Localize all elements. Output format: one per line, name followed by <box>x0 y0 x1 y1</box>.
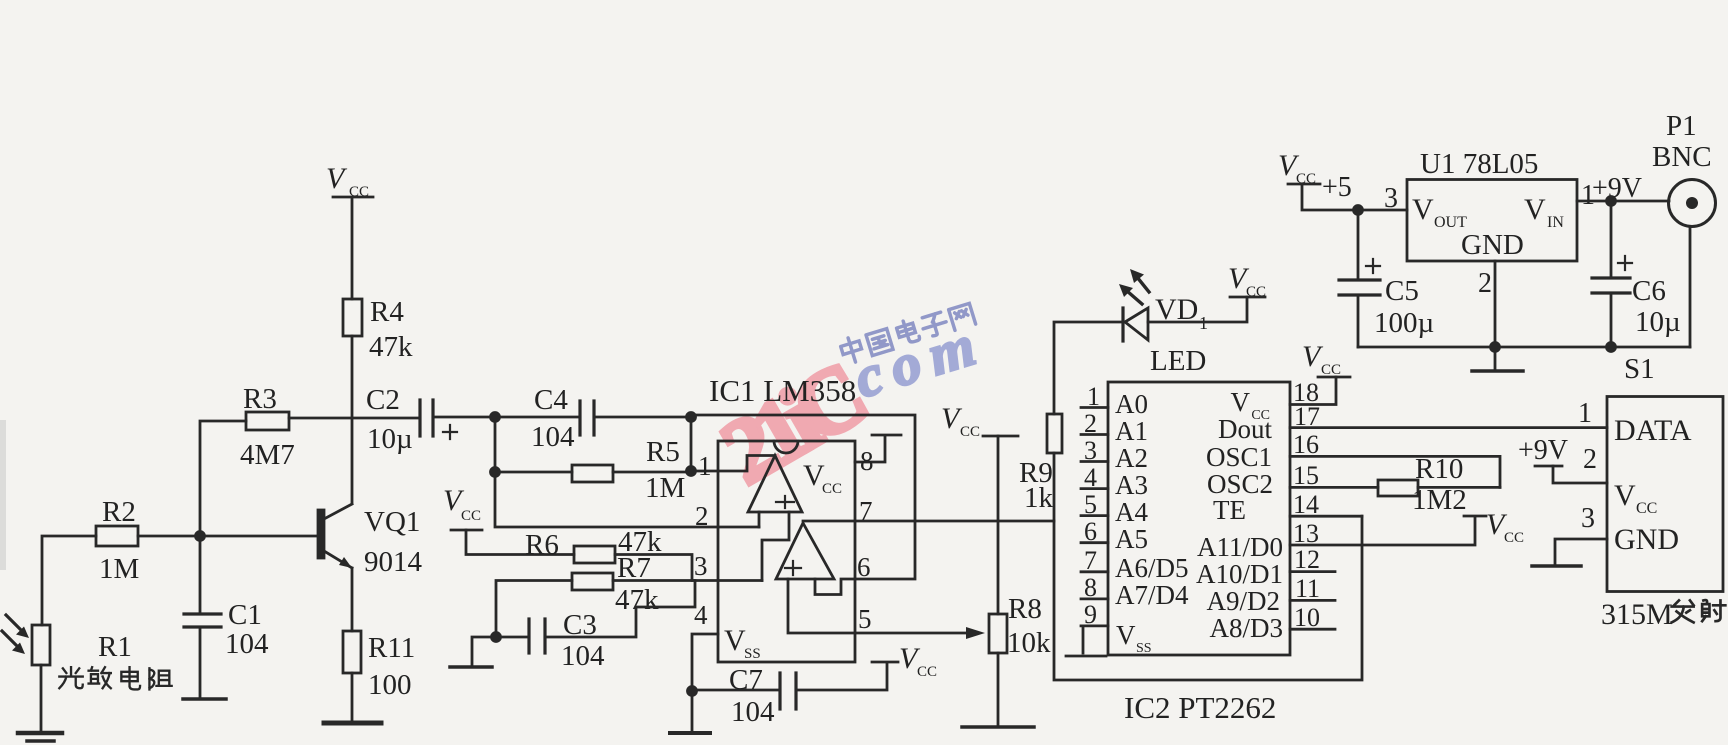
IC2 pin 5 stub <box>1081 490 1108 519</box>
resistor R5 1M <box>572 436 685 504</box>
capacitor C6 10u <box>1592 256 1681 338</box>
IC2 pin 12 stub <box>1290 545 1335 574</box>
svg-text:5: 5 <box>858 604 872 634</box>
svg-text:A7/D4: A7/D4 <box>1115 580 1189 610</box>
svg-text:5: 5 <box>1084 490 1097 519</box>
photoresistor R1 <box>2 615 132 665</box>
pin 8 to Vcc bar <box>855 435 901 476</box>
svg-text:VQ1: VQ1 <box>364 506 420 538</box>
svg-text:2: 2 <box>1583 444 1597 475</box>
wire C4 to node A <box>594 416 691 419</box>
op-amp IC1 LM358 package <box>709 373 856 662</box>
node pin1/R5 <box>687 467 696 476</box>
svg-text:CC: CC <box>1321 362 1341 378</box>
wire R2 left down to R1 <box>42 536 96 625</box>
IC2 pin 16 OSC1 wire <box>1290 430 1500 487</box>
IC2 pin 7 stub <box>1081 546 1108 575</box>
svg-text:C4: C4 <box>534 384 568 416</box>
svg-text:R8: R8 <box>1008 593 1042 625</box>
pin 5 route from op-amp B <box>788 579 872 634</box>
svg-text:V: V <box>1614 479 1636 512</box>
svg-text:10µ: 10µ <box>1635 306 1681 338</box>
wire base node to base <box>200 535 318 538</box>
wire C7 to Vcc <box>796 663 887 690</box>
svg-text:GND: GND <box>1461 229 1524 261</box>
svg-text:SS: SS <box>744 646 761 662</box>
svg-text:C2: C2 <box>366 384 400 416</box>
svg-text:IC2 PT2262: IC2 PT2262 <box>1124 690 1276 725</box>
svg-text:A5: A5 <box>1115 524 1148 554</box>
wire top loop node A to pin 6 <box>691 415 915 579</box>
svg-text:16: 16 <box>1293 430 1319 459</box>
svg-text:104: 104 <box>225 628 269 660</box>
op-amp A triangle <box>748 456 802 513</box>
svg-text:CC: CC <box>1246 284 1266 300</box>
svg-text:R6: R6 <box>525 529 559 561</box>
svg-text:1M: 1M <box>645 472 685 504</box>
wire R11 to ground <box>351 673 354 721</box>
svg-text:IC1 LM358: IC1 LM358 <box>709 373 856 408</box>
wire R8 to ground <box>997 653 1000 725</box>
wire module pin 3 to ground <box>1555 539 1607 564</box>
svg-text:TE: TE <box>1213 495 1246 525</box>
svg-text:C1: C1 <box>228 599 262 631</box>
svg-text:12: 12 <box>1294 545 1320 574</box>
svg-text:R2: R2 <box>102 496 136 528</box>
ground below C1 <box>183 697 226 701</box>
svg-text:GND: GND <box>1614 523 1679 556</box>
wire R5 left lead <box>495 471 572 474</box>
svg-text:1: 1 <box>698 451 712 481</box>
svg-text:A1: A1 <box>1115 416 1148 446</box>
wire C5 bottom to rail <box>1357 295 1360 347</box>
wire R1 to ground <box>40 665 43 731</box>
IC2 pin 2 stub <box>1081 409 1108 438</box>
op-amp B triangle <box>776 523 834 579</box>
svg-text:15: 15 <box>1293 461 1319 490</box>
svg-text:U1 78L05: U1 78L05 <box>1420 148 1538 180</box>
capacitor C3 104 <box>529 609 605 672</box>
IC2 right pin labels <box>1196 387 1283 643</box>
svg-text:1: 1 <box>1087 382 1100 411</box>
svg-text:9: 9 <box>1084 600 1097 629</box>
resistor R4 47k <box>343 296 413 363</box>
svg-text:6: 6 <box>857 552 871 582</box>
svg-text:A10/D1: A10/D1 <box>1196 559 1283 589</box>
label 315M发射 <box>1601 598 1725 631</box>
svg-text:7: 7 <box>859 496 873 526</box>
svg-text:47k: 47k <box>369 331 413 363</box>
pin 6 hook on op-amp B <box>815 552 871 595</box>
ground below R11 <box>324 721 381 726</box>
svg-text:13: 13 <box>1293 519 1319 548</box>
svg-text:A8/D3: A8/D3 <box>1210 613 1284 643</box>
wire R9 up to LED <box>1054 322 1123 414</box>
svg-text:3: 3 <box>1084 436 1097 465</box>
resistor R6 47k <box>525 526 662 563</box>
wire node to C4 <box>495 416 580 419</box>
svg-text:Dout: Dout <box>1218 414 1272 444</box>
svg-text:14: 14 <box>1293 490 1319 519</box>
IC2 pin 1 stub <box>1081 382 1108 411</box>
svg-text:17: 17 <box>1294 402 1320 431</box>
svg-text:104: 104 <box>731 696 775 728</box>
pin 7 output wire <box>803 496 1054 526</box>
IC2 pin 13 wire to Vcc <box>1290 508 1524 548</box>
node C5 top <box>1354 206 1363 215</box>
ground below pin4 <box>670 731 710 735</box>
LED VD1 <box>1119 269 1208 341</box>
node C6 rail <box>1607 343 1616 352</box>
wire R3 left down to base node <box>200 421 246 614</box>
svg-text:1k: 1k <box>1024 482 1054 514</box>
IC2 pin 8 stub <box>1081 573 1108 602</box>
wire +9V to module pin 2 <box>1553 466 1607 483</box>
pin 2 stub to op-amp A <box>695 501 759 531</box>
wire node A down to pin1 node <box>690 417 693 471</box>
ground below C3 <box>450 665 492 669</box>
watermark 中国电子网 logo <box>839 301 976 365</box>
svg-text:V: V <box>1524 193 1546 226</box>
wire C6 top lead <box>1610 201 1613 278</box>
svg-text:100: 100 <box>368 669 412 701</box>
wire pin 5 arrow to R8 wiper <box>855 627 985 639</box>
svg-text:C6: C6 <box>1632 275 1666 307</box>
IC2 pin 9 stub and hook <box>1066 600 1108 656</box>
wire Vcc to R4 <box>351 197 354 299</box>
capacitor C1 104 <box>184 599 269 660</box>
regulator U1 78L05 <box>1384 148 1595 299</box>
capacitor C7 104 <box>729 664 796 728</box>
label 光敏电阻 <box>59 667 171 689</box>
svg-text:3: 3 <box>1384 183 1398 214</box>
wire R7 left down to C3 node <box>496 581 572 638</box>
svg-text:CC: CC <box>960 424 980 440</box>
Vcc supply above R4 <box>326 162 373 200</box>
capacitor C4 104 <box>531 384 594 453</box>
svg-text:R3: R3 <box>243 383 277 415</box>
wire R6 to pin3 node <box>615 555 692 581</box>
svg-text:C5: C5 <box>1385 275 1419 307</box>
svg-text:IN: IN <box>1547 214 1564 231</box>
svg-text:CC: CC <box>1296 171 1316 187</box>
IC2 pin 18 stub to Vcc <box>1290 340 1350 407</box>
wire C3 left to node <box>496 636 529 639</box>
svg-text:+9V: +9V <box>1518 435 1568 466</box>
wire R9 down TE loop <box>1054 453 1362 680</box>
svg-text:104: 104 <box>531 421 575 453</box>
IC2 left pin labels <box>1115 389 1189 656</box>
svg-text:SS: SS <box>1136 641 1152 656</box>
IC2 pin 3 stub <box>1081 436 1108 465</box>
potentiometer R8 10k <box>989 593 1051 659</box>
svg-text:3: 3 <box>1581 503 1595 534</box>
svg-text:A6/D5: A6/D5 <box>1115 553 1189 583</box>
svg-text:C7: C7 <box>729 664 763 696</box>
svg-text:315M: 315M <box>1601 598 1673 631</box>
svg-text:CC: CC <box>822 481 842 497</box>
capacitor C2 10u <box>366 384 457 455</box>
svg-text:R10: R10 <box>1415 453 1463 485</box>
svg-text:BNC: BNC <box>1652 141 1712 173</box>
svg-text:100µ: 100µ <box>1374 307 1434 339</box>
svg-text:V: V <box>1231 387 1251 417</box>
wire C5 top lead <box>1357 210 1360 280</box>
svg-text:1: 1 <box>1578 398 1592 429</box>
pin 1 internal route <box>691 451 775 481</box>
wire emitter to R11 <box>351 568 354 631</box>
svg-text:A3: A3 <box>1115 470 1148 500</box>
svg-text:11: 11 <box>1295 574 1320 603</box>
svg-text:+9V: +9V <box>1592 173 1642 204</box>
Vcc supply at LED <box>1228 262 1266 300</box>
Vcc supply for R6 <box>443 484 482 530</box>
svg-text:V: V <box>1412 193 1434 226</box>
Vcc +5 supply left of U1 <box>1278 149 1352 203</box>
wire C2 node down to pin2 <box>495 417 759 527</box>
node pin4 ground <box>688 687 697 696</box>
node GND rail <box>1491 343 1500 352</box>
ground below R1 <box>18 733 62 741</box>
resistor R3 4M7 <box>240 383 295 471</box>
wire C3 node to ground <box>472 637 496 665</box>
svg-text:1M2: 1M2 <box>1412 484 1467 516</box>
svg-text:V: V <box>326 162 348 195</box>
wire U1 pin1 to BNC <box>1577 200 1669 203</box>
connector P1 BNC <box>1652 110 1716 227</box>
Vcc supply above R8 <box>941 402 1018 440</box>
node C6 top <box>1607 197 1616 206</box>
wire BNC shell to rail <box>1689 227 1692 348</box>
wire pin4 node to ground <box>691 691 694 731</box>
svg-text:A11/D0: A11/D0 <box>1197 532 1283 562</box>
wire Vcc down to R8 <box>997 436 1000 614</box>
resistor R11 100 <box>343 631 415 701</box>
svg-text:CC: CC <box>461 508 481 524</box>
wire Vcc to R6 <box>466 530 574 555</box>
wire R4 to collector node <box>351 336 354 503</box>
capacitor C5 100u <box>1339 259 1434 339</box>
svg-text:R11: R11 <box>368 632 415 664</box>
ground below R8 <box>962 725 1034 729</box>
svg-text:CC: CC <box>917 664 937 680</box>
svg-text:com: com <box>847 309 993 410</box>
svg-text:6: 6 <box>1084 517 1097 546</box>
node base junction <box>196 532 205 541</box>
IC2 pin 11 stub <box>1290 574 1335 603</box>
svg-text:9014: 9014 <box>364 546 423 578</box>
resistor R10 1M2 <box>1378 453 1467 516</box>
svg-text:A9/D2: A9/D2 <box>1207 586 1281 616</box>
Vcc supply at C7 <box>872 642 937 680</box>
wire C2 to node <box>433 416 495 419</box>
wire pin4 node to C7 <box>692 689 778 692</box>
svg-text:A0: A0 <box>1115 389 1148 419</box>
wire LED to Vcc <box>1148 297 1247 322</box>
node C3 left <box>492 633 501 642</box>
wire U1 GND pin 2 <box>1494 261 1497 369</box>
IC2 pin 14 TE stub <box>1290 490 1362 519</box>
svg-text:4M7: 4M7 <box>240 439 295 471</box>
svg-text:104: 104 <box>561 640 605 672</box>
IC2 pin 17 Dout wire to module <box>1290 402 1607 431</box>
svg-text:A2: A2 <box>1115 443 1148 473</box>
svg-text:DATA: DATA <box>1614 414 1692 447</box>
pin 4 wire to ground node <box>692 600 718 691</box>
pin 3 route to op-amp A <box>694 512 789 581</box>
IC2 pin 6 stub <box>1081 517 1108 546</box>
svg-text:LED: LED <box>1150 345 1206 377</box>
+9V supply at module pin2 <box>1518 435 1568 466</box>
svg-text:2: 2 <box>1478 268 1492 299</box>
svg-text:3: 3 <box>694 551 708 581</box>
node A <box>687 413 696 422</box>
wire C6 bottom to rail <box>1610 293 1613 347</box>
svg-text:4: 4 <box>1084 463 1097 492</box>
ground below rail <box>1472 369 1523 373</box>
svg-text:V: V <box>1116 620 1136 650</box>
svg-text:8: 8 <box>860 446 874 476</box>
resistor R9 1k <box>1019 414 1062 514</box>
wire R7 right to pin 3 <box>613 579 762 582</box>
wire C3 right to pin3 line <box>545 581 695 638</box>
wire C1 to ground <box>199 627 202 697</box>
resistor R7 47k <box>572 552 659 616</box>
svg-text:OSC1: OSC1 <box>1206 442 1272 472</box>
svg-text:A4: A4 <box>1115 497 1148 527</box>
svg-text:S1: S1 <box>1624 353 1655 385</box>
svg-text:CC: CC <box>1636 500 1657 517</box>
resistor R2 1M <box>96 496 139 585</box>
IC2 PT2262 box <box>1108 345 1290 725</box>
svg-text:8: 8 <box>1084 573 1097 602</box>
svg-text:P1: P1 <box>1666 110 1697 142</box>
node R5 left <box>491 468 500 477</box>
svg-text:R1: R1 <box>98 631 132 663</box>
transmitter module 315M box <box>1578 397 1723 592</box>
IC2 pin 4 stub <box>1081 463 1108 492</box>
ground below module pin3 <box>1532 564 1581 568</box>
wire R3 right to C2 node <box>289 417 420 420</box>
wire R2 to base node <box>138 535 200 538</box>
svg-text:10: 10 <box>1294 603 1320 632</box>
svg-text:1M: 1M <box>99 553 139 585</box>
svg-text:10k: 10k <box>1007 627 1051 659</box>
svg-text:2: 2 <box>1084 409 1097 438</box>
svg-text:2: 2 <box>695 501 709 531</box>
svg-text:10µ: 10µ <box>367 423 413 455</box>
svg-text:V: V <box>724 624 746 657</box>
ground rail under U1 <box>1358 346 1690 349</box>
wire R5 right lead <box>613 471 691 474</box>
svg-text:7: 7 <box>1084 546 1097 575</box>
svg-text:R5: R5 <box>646 436 680 468</box>
node C2 output <box>491 413 500 422</box>
svg-text:+5: +5 <box>1322 172 1352 203</box>
svg-text:CC: CC <box>1504 530 1524 546</box>
IC2 pin 10 stub <box>1290 603 1335 632</box>
IC2 pin 15 OSC2 wire <box>1290 461 1500 490</box>
wire Vcc to U1 pin3 <box>1302 184 1407 210</box>
svg-text:R4: R4 <box>370 296 404 328</box>
transistor VQ1 9014 <box>318 504 423 578</box>
